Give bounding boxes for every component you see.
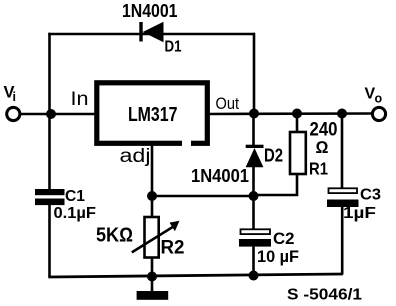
node R2 ground — [147, 272, 157, 282]
svg-text:Out: Out — [216, 95, 240, 113]
label Vi — [4, 84, 16, 105]
wire adj (box to adj node) — [151, 144, 154, 196]
svg-text:S -5046/1: S -5046/1 — [287, 287, 362, 304]
wire D2 upper — [252, 114, 255, 146]
node input junction — [46, 109, 56, 119]
svg-text:5KΩ: 5KΩ — [96, 225, 133, 247]
svg-text:C2: C2 — [273, 229, 295, 248]
wire D1 right riser — [253, 33, 256, 114]
svg-text:i: i — [13, 90, 16, 104]
wire C2 upper — [252, 196, 255, 230]
node C3 top — [337, 109, 347, 119]
node C2 ground — [249, 271, 259, 281]
wire C2 lower — [252, 247, 255, 276]
label Vo — [365, 86, 383, 106]
wire R2 top — [151, 196, 154, 218]
svg-text:C3: C3 — [360, 187, 381, 204]
capacitor C2 — [239, 229, 271, 246]
wire C3 stem — [341, 114, 344, 189]
diode D2 — [246, 145, 264, 168]
ground — [137, 277, 169, 300]
svg-text:Ω: Ω — [316, 138, 329, 157]
wire top rail — [48, 33, 254, 36]
wire C1 branch upper — [48, 114, 51, 190]
svg-text:1N4001: 1N4001 — [122, 0, 178, 21]
regulator U1 LM317 — [97, 83, 208, 146]
wire adj to D2 node — [152, 195, 254, 198]
diode D1 — [139, 22, 163, 43]
terminal Vi — [7, 107, 20, 120]
wire R1 top stem — [296, 114, 299, 133]
wire C3 lower — [341, 207, 344, 275]
wire D2 lower — [252, 167, 255, 196]
resistor R1 — [290, 132, 306, 174]
node D2 bottom — [249, 191, 259, 201]
node adj — [147, 191, 157, 201]
node R1 top — [292, 109, 302, 119]
svg-text:D1: D1 — [165, 39, 182, 56]
capacitor C1 — [35, 189, 65, 205]
svg-text:1N4001: 1N4001 — [191, 165, 249, 186]
node output D1/D2 — [249, 109, 259, 119]
svg-text:adj: adj — [120, 146, 151, 167]
svg-text:In: In — [71, 88, 89, 110]
svg-text:10 µF: 10 µF — [257, 247, 299, 266]
svg-text:o: o — [375, 92, 383, 106]
svg-text:D2: D2 — [264, 146, 283, 166]
resistor R2 (variable) — [132, 217, 180, 258]
svg-text:C1: C1 — [65, 188, 85, 205]
wire input (Vi to In pin) — [21, 113, 96, 116]
terminal Vo — [372, 107, 385, 120]
wire left riser (Vi node to top rail) — [48, 33, 51, 114]
capacitor C3 — [327, 188, 359, 207]
svg-text:0.1µF: 0.1µF — [54, 205, 97, 222]
svg-text:R2: R2 — [161, 238, 185, 259]
wire bottom rail — [48, 274, 343, 277]
wire output rail (Out pin to Vo) — [207, 112, 373, 115]
svg-text:R1: R1 — [309, 159, 328, 179]
wire C1 branch lower — [48, 205, 51, 277]
wire R2 bottom — [151, 258, 154, 277]
wire R1 bottom to D2 node — [253, 174, 297, 195]
svg-text:LM317: LM317 — [128, 103, 178, 126]
svg-text:1µF: 1µF — [343, 205, 376, 222]
